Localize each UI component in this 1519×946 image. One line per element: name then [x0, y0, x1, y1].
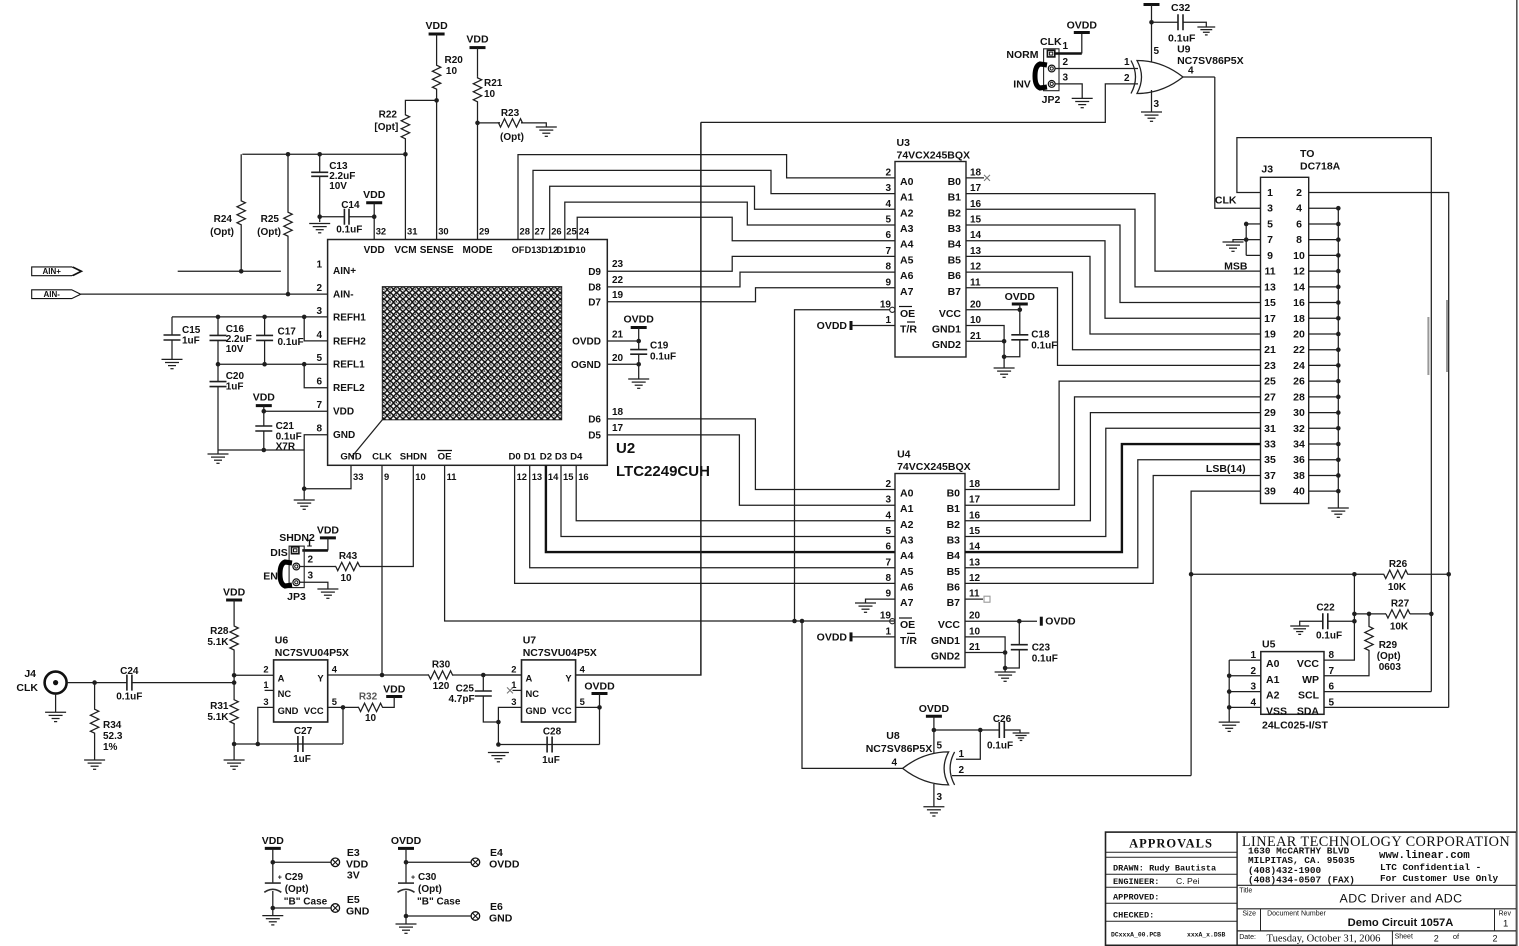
svg-text:16: 16 — [1293, 297, 1305, 309]
svg-text:33: 33 — [353, 471, 363, 482]
svg-text:3: 3 — [885, 495, 891, 506]
svg-text:U8: U8 — [886, 730, 900, 742]
svg-text:6: 6 — [885, 542, 891, 553]
svg-text:C15: C15 — [182, 325, 201, 336]
svg-text:17: 17 — [612, 423, 624, 434]
svg-text:B7: B7 — [947, 597, 961, 609]
svg-text:2: 2 — [1434, 933, 1439, 943]
svg-text:2: 2 — [308, 555, 314, 566]
svg-text:A2: A2 — [900, 207, 914, 219]
svg-text:1: 1 — [959, 749, 965, 760]
svg-text:24LC025-I/ST: 24LC025-I/ST — [1262, 720, 1329, 732]
svg-text:7: 7 — [1329, 666, 1335, 677]
svg-text:C. Pei: C. Pei — [1176, 876, 1199, 886]
svg-text:OVDD: OVDD — [1005, 291, 1036, 303]
svg-text:E4: E4 — [490, 847, 503, 859]
svg-text:18: 18 — [612, 407, 624, 418]
svg-text:Title: Title — [1239, 887, 1252, 894]
svg-text:R27: R27 — [1391, 599, 1410, 610]
svg-text:AIN-: AIN- — [43, 290, 60, 299]
svg-text:(Opt): (Opt) — [285, 884, 309, 895]
svg-text:B0: B0 — [947, 488, 961, 500]
svg-text:T/R: T/R — [900, 635, 917, 647]
svg-text:GND: GND — [340, 452, 361, 463]
svg-text:D10: D10 — [569, 245, 586, 255]
svg-text:5: 5 — [580, 696, 585, 707]
svg-text:4: 4 — [580, 664, 586, 675]
svg-text:30: 30 — [1293, 407, 1305, 419]
svg-text:0.1uF: 0.1uF — [278, 337, 304, 348]
svg-text:CLK: CLK — [16, 682, 38, 694]
svg-text:13: 13 — [970, 246, 982, 257]
svg-text:13: 13 — [969, 557, 981, 568]
svg-text:D13: D13 — [525, 245, 542, 255]
svg-text:U9: U9 — [1177, 44, 1191, 56]
svg-text:3: 3 — [316, 306, 322, 317]
svg-text:32: 32 — [1293, 423, 1305, 435]
svg-text:NC: NC — [278, 688, 292, 699]
svg-text:T/R: T/R — [900, 324, 917, 336]
svg-text:D2: D2 — [540, 452, 552, 463]
svg-text:C32: C32 — [1171, 2, 1190, 14]
svg-text:4: 4 — [332, 664, 338, 675]
svg-text:A0: A0 — [900, 176, 914, 188]
svg-text:B4: B4 — [947, 550, 961, 562]
svg-text:33: 33 — [1264, 439, 1276, 451]
svg-text:NC7SVU04P5X: NC7SVU04P5X — [275, 647, 349, 659]
svg-text:14: 14 — [548, 471, 559, 482]
svg-text:19: 19 — [612, 290, 624, 301]
svg-text:32: 32 — [376, 226, 386, 237]
svg-text:18: 18 — [1293, 313, 1305, 325]
svg-text:D4: D4 — [570, 452, 583, 463]
svg-text:4: 4 — [1296, 203, 1302, 215]
svg-text:6: 6 — [1329, 682, 1335, 693]
svg-text:A6: A6 — [900, 581, 914, 593]
svg-text:12: 12 — [970, 262, 982, 273]
svg-text:R24: R24 — [214, 214, 233, 225]
svg-text:C25: C25 — [456, 684, 475, 695]
svg-text:(Opt): (Opt) — [418, 884, 442, 895]
svg-text:A0: A0 — [900, 488, 914, 500]
svg-text:3: 3 — [1063, 73, 1069, 84]
svg-text:AIN+: AIN+ — [333, 266, 356, 277]
svg-text:Date:: Date: — [1239, 934, 1256, 941]
svg-text:1: 1 — [1503, 919, 1508, 930]
svg-text:(Opt): (Opt) — [500, 132, 524, 143]
svg-text:1%: 1% — [103, 742, 118, 753]
svg-text:MSB: MSB — [1224, 261, 1248, 273]
svg-text:REFL1: REFL1 — [333, 360, 365, 371]
svg-text:B2: B2 — [948, 207, 962, 219]
svg-text:B6: B6 — [947, 581, 961, 593]
svg-text:12: 12 — [517, 471, 527, 482]
svg-text:11: 11 — [970, 277, 981, 288]
svg-text:OVDD: OVDD — [489, 859, 520, 871]
svg-text:R25: R25 — [261, 214, 280, 225]
svg-text:1: 1 — [263, 679, 268, 690]
svg-text:10: 10 — [340, 573, 352, 584]
svg-text:10: 10 — [446, 66, 458, 77]
svg-text:A4: A4 — [900, 550, 914, 562]
svg-text:A7: A7 — [900, 286, 914, 298]
svg-text:0603: 0603 — [1379, 662, 1402, 673]
svg-text:C22: C22 — [1316, 603, 1335, 614]
svg-text:5.1K: 5.1K — [207, 637, 229, 648]
svg-text:WP: WP — [1302, 674, 1319, 686]
svg-text:B5: B5 — [947, 566, 961, 578]
svg-text:APPROVED:: APPROVED: — [1113, 893, 1159, 903]
svg-text:36: 36 — [1293, 454, 1305, 466]
svg-text:2: 2 — [1493, 933, 1498, 943]
svg-text:C14: C14 — [341, 200, 360, 211]
svg-text:18: 18 — [970, 167, 982, 178]
svg-text:5: 5 — [885, 215, 891, 226]
svg-text:11: 11 — [1264, 266, 1275, 278]
svg-text:0.1uF: 0.1uF — [1032, 654, 1058, 665]
svg-text:CHECKED:: CHECKED: — [1113, 911, 1154, 921]
svg-text:OVDD: OVDD — [1067, 20, 1098, 32]
svg-text:17: 17 — [969, 495, 981, 506]
svg-text:Rev: Rev — [1499, 911, 1512, 918]
svg-text:A3: A3 — [900, 223, 914, 235]
svg-text:2: 2 — [1250, 666, 1256, 677]
svg-text:28: 28 — [1293, 391, 1305, 403]
svg-text:OVDD: OVDD — [1045, 616, 1076, 628]
svg-text:31: 31 — [407, 226, 417, 237]
svg-text:R22: R22 — [379, 110, 398, 121]
svg-text:8: 8 — [1329, 650, 1335, 661]
svg-text:9: 9 — [885, 277, 891, 288]
svg-text:10V: 10V — [329, 181, 347, 192]
svg-text:R43: R43 — [339, 551, 358, 562]
svg-text:D1: D1 — [524, 452, 537, 463]
svg-text:D9: D9 — [588, 267, 601, 278]
svg-text:"B" Case: "B" Case — [284, 897, 328, 908]
svg-text:5: 5 — [885, 526, 891, 537]
svg-text:OVDD: OVDD — [817, 631, 848, 643]
svg-text:0.1uF: 0.1uF — [650, 352, 676, 363]
svg-text:NC7SV86P5X: NC7SV86P5X — [866, 743, 933, 755]
svg-text:9: 9 — [384, 471, 389, 482]
svg-text:6: 6 — [316, 377, 322, 388]
svg-text:30: 30 — [438, 226, 448, 237]
svg-text:0.1uF: 0.1uF — [116, 692, 142, 703]
svg-text:4: 4 — [885, 510, 891, 521]
svg-text:9: 9 — [885, 589, 891, 600]
svg-text:R23: R23 — [501, 108, 520, 119]
svg-text:R31: R31 — [210, 701, 229, 712]
svg-text:4.7pF: 4.7pF — [448, 694, 474, 705]
svg-text:SHDN: SHDN — [400, 452, 427, 463]
svg-text:+: + — [278, 875, 282, 882]
svg-text:15: 15 — [1264, 297, 1276, 309]
svg-text:(Opt): (Opt) — [257, 227, 281, 238]
svg-text:29: 29 — [1264, 407, 1276, 419]
svg-text:GND: GND — [278, 705, 299, 716]
svg-text:"B" Case: "B" Case — [417, 897, 461, 908]
svg-text:24: 24 — [1293, 360, 1305, 372]
svg-text:R28: R28 — [210, 626, 229, 637]
svg-text:4: 4 — [891, 758, 897, 769]
svg-text:14: 14 — [1293, 281, 1305, 293]
svg-text:74VCX245BQX: 74VCX245BQX — [897, 461, 971, 473]
svg-text:R21: R21 — [484, 78, 503, 89]
svg-text:10V: 10V — [226, 344, 244, 355]
svg-text:3: 3 — [263, 696, 268, 707]
svg-text:1: 1 — [1063, 41, 1069, 52]
svg-text:INV: INV — [1013, 79, 1031, 91]
svg-text:Y: Y — [317, 673, 324, 684]
svg-text:A1: A1 — [900, 503, 914, 515]
svg-text:8: 8 — [316, 424, 322, 435]
svg-text:24: 24 — [579, 226, 590, 237]
svg-text:23: 23 — [1264, 360, 1276, 372]
svg-text:C29: C29 — [285, 872, 304, 883]
svg-text:4: 4 — [1188, 66, 1194, 77]
svg-text:D8: D8 — [588, 283, 601, 294]
svg-text:NC7SVU04P5X: NC7SVU04P5X — [523, 647, 597, 659]
svg-text:39: 39 — [1264, 486, 1276, 498]
svg-text:VSS: VSS — [1266, 705, 1287, 717]
svg-text:REFH2: REFH2 — [333, 336, 366, 347]
svg-text:0.1uF: 0.1uF — [336, 225, 362, 236]
svg-text:120: 120 — [433, 681, 450, 692]
svg-text:A: A — [278, 673, 285, 684]
svg-text:38: 38 — [1293, 470, 1305, 482]
svg-text:OVDD: OVDD — [919, 703, 950, 715]
svg-text:1: 1 — [885, 626, 891, 637]
svg-text:E5: E5 — [347, 894, 360, 906]
svg-text:A7: A7 — [900, 597, 914, 609]
svg-text:C30: C30 — [418, 872, 437, 883]
svg-text:U6: U6 — [275, 635, 289, 647]
svg-text:B7: B7 — [948, 286, 962, 298]
svg-text:C18: C18 — [1031, 330, 1050, 341]
svg-text:(Opt): (Opt) — [1377, 651, 1401, 662]
svg-text:37: 37 — [1264, 470, 1276, 482]
svg-text:B3: B3 — [948, 223, 962, 235]
svg-text:Sheet: Sheet — [1395, 933, 1413, 940]
svg-text:JP3: JP3 — [287, 591, 306, 603]
svg-text:AIN-: AIN- — [333, 290, 354, 301]
svg-text:R29: R29 — [1379, 640, 1398, 651]
svg-text:VDD: VDD — [317, 525, 340, 537]
svg-text:TO: TO — [1300, 148, 1314, 160]
svg-text:A2: A2 — [900, 519, 914, 531]
svg-text:C19: C19 — [650, 341, 669, 352]
svg-text:OVDD: OVDD — [817, 320, 848, 332]
svg-text:5: 5 — [332, 696, 337, 707]
svg-text:U5: U5 — [1262, 639, 1276, 651]
svg-text:B5: B5 — [948, 254, 962, 266]
svg-text:7: 7 — [885, 246, 891, 257]
svg-text:16: 16 — [970, 199, 982, 210]
svg-text:C23: C23 — [1032, 643, 1051, 654]
svg-text:MODE: MODE — [463, 245, 493, 256]
svg-text:GND2: GND2 — [932, 339, 961, 351]
svg-text:2: 2 — [263, 664, 268, 675]
svg-text:18: 18 — [969, 479, 981, 490]
svg-text:29: 29 — [479, 226, 489, 237]
svg-text:xxxA_x.DSB: xxxA_x.DSB — [1187, 932, 1226, 939]
svg-text:A: A — [526, 673, 533, 684]
svg-text:15: 15 — [970, 215, 982, 226]
svg-text:2: 2 — [959, 765, 965, 776]
svg-text:8: 8 — [885, 262, 891, 273]
svg-text:GND1: GND1 — [932, 324, 961, 336]
svg-text:2: 2 — [316, 283, 322, 294]
svg-text:3: 3 — [308, 571, 314, 582]
svg-text:10K: 10K — [1390, 622, 1409, 633]
svg-text:U7: U7 — [523, 635, 537, 647]
svg-text:D12: D12 — [541, 245, 558, 255]
svg-text:D0: D0 — [508, 452, 520, 463]
svg-text:11: 11 — [447, 471, 457, 482]
svg-text:10: 10 — [969, 626, 981, 637]
svg-text:27: 27 — [1264, 391, 1276, 403]
svg-text:26: 26 — [551, 226, 561, 237]
svg-text:21: 21 — [969, 642, 981, 653]
svg-text:VCC: VCC — [938, 619, 961, 631]
svg-text:VCM: VCM — [394, 245, 416, 256]
svg-text:NC: NC — [526, 688, 540, 699]
svg-text:5: 5 — [1329, 697, 1335, 708]
svg-text:E6: E6 — [490, 901, 503, 913]
svg-text:APPROVALS: APPROVALS — [1129, 837, 1213, 851]
svg-text:C24: C24 — [120, 666, 139, 677]
svg-text:X7R: X7R — [276, 442, 296, 453]
svg-text:5.1K: 5.1K — [207, 712, 229, 723]
svg-text:A2: A2 — [1266, 690, 1280, 702]
svg-text:3: 3 — [1267, 203, 1273, 215]
svg-text:LSB(14): LSB(14) — [1206, 463, 1246, 475]
svg-text:16: 16 — [578, 471, 588, 482]
svg-text:6: 6 — [1296, 218, 1302, 230]
svg-text:OVDD: OVDD — [572, 337, 601, 348]
svg-text:SDA: SDA — [1297, 705, 1320, 717]
svg-text:9: 9 — [1267, 250, 1273, 262]
svg-text:21: 21 — [970, 331, 982, 342]
svg-text:2: 2 — [885, 167, 891, 178]
svg-text:10: 10 — [415, 471, 425, 482]
svg-text:R30: R30 — [432, 660, 451, 671]
svg-text:25: 25 — [566, 226, 576, 237]
svg-text:GND: GND — [333, 430, 355, 441]
svg-text:OE: OE — [900, 619, 915, 631]
svg-text:DCxxxA_00.PCB: DCxxxA_00.PCB — [1111, 932, 1161, 939]
svg-text:Tuesday, October 31, 2006: Tuesday, October 31, 2006 — [1267, 933, 1381, 944]
svg-text:20: 20 — [969, 611, 981, 622]
svg-text:11: 11 — [969, 589, 980, 600]
svg-text:A5: A5 — [900, 566, 914, 578]
svg-text:www.linear.com: www.linear.com — [1379, 850, 1470, 862]
svg-text:7: 7 — [885, 557, 891, 568]
svg-text:16: 16 — [969, 510, 981, 521]
svg-text:OGND: OGND — [571, 360, 601, 371]
svg-text:D5: D5 — [588, 431, 601, 442]
svg-text:34: 34 — [1293, 439, 1305, 451]
svg-text:3: 3 — [1250, 682, 1256, 693]
svg-text:17: 17 — [1264, 313, 1276, 325]
svg-text:20: 20 — [970, 299, 982, 310]
svg-text:[Opt]: [Opt] — [374, 122, 398, 133]
svg-text:13: 13 — [532, 471, 542, 482]
svg-text:DC718A: DC718A — [1300, 161, 1341, 173]
svg-text:3: 3 — [1154, 99, 1160, 110]
svg-text:OF: OF — [512, 245, 525, 255]
svg-text:0.1uF: 0.1uF — [1031, 341, 1057, 352]
svg-text:B3: B3 — [947, 534, 961, 546]
svg-text:of: of — [1453, 932, 1460, 941]
svg-text:25: 25 — [1264, 376, 1276, 388]
svg-text:1: 1 — [307, 539, 313, 550]
svg-text:OVDD: OVDD — [584, 681, 615, 693]
svg-text:VDD: VDD — [253, 392, 276, 404]
svg-text:J4: J4 — [24, 668, 36, 680]
svg-text:GND1: GND1 — [931, 635, 960, 647]
svg-text:2: 2 — [511, 664, 516, 675]
svg-text:(Opt): (Opt) — [210, 227, 234, 238]
svg-text:AIN+: AIN+ — [42, 267, 61, 276]
svg-text:31: 31 — [1264, 423, 1276, 435]
svg-text:ENGINEER:: ENGINEER: — [1113, 877, 1159, 887]
svg-text:5: 5 — [1154, 46, 1160, 57]
svg-text:3: 3 — [885, 183, 891, 194]
svg-text:ADC Driver and ADC: ADC Driver and ADC — [1340, 892, 1463, 906]
svg-text:10: 10 — [970, 315, 982, 326]
svg-text:40: 40 — [1293, 486, 1305, 498]
svg-text:0.1uF: 0.1uF — [987, 741, 1013, 752]
svg-text:1uF: 1uF — [542, 755, 560, 766]
svg-text:2: 2 — [1063, 57, 1069, 68]
svg-text:Demo Circuit 1057A: Demo Circuit 1057A — [1348, 917, 1454, 929]
svg-text:7: 7 — [1267, 234, 1273, 246]
svg-text:B6: B6 — [948, 270, 962, 282]
svg-text:A5: A5 — [900, 254, 914, 266]
svg-text:REFH1: REFH1 — [333, 312, 366, 323]
svg-text:OE: OE — [438, 452, 452, 463]
svg-text:GND: GND — [526, 705, 547, 716]
svg-text:15: 15 — [563, 471, 573, 482]
svg-text:Document Number: Document Number — [1267, 911, 1326, 918]
svg-text:20: 20 — [612, 353, 624, 364]
svg-text:DRAWN: Rudy Bautista: DRAWN: Rudy Bautista — [1113, 864, 1216, 874]
svg-text:VDD: VDD — [466, 34, 489, 46]
svg-text:3: 3 — [937, 792, 943, 803]
svg-text:1: 1 — [1267, 187, 1273, 199]
svg-text:VCC: VCC — [304, 705, 324, 716]
svg-text:C17: C17 — [278, 327, 297, 338]
svg-text:R20: R20 — [445, 55, 464, 66]
svg-text:3: 3 — [511, 696, 516, 707]
svg-text:DIS: DIS — [270, 547, 288, 559]
svg-text:A0: A0 — [1266, 658, 1280, 670]
svg-text:VDD: VDD — [426, 20, 449, 32]
svg-text:23: 23 — [612, 259, 624, 270]
svg-text:3V: 3V — [347, 870, 360, 882]
svg-text:Size: Size — [1242, 911, 1256, 918]
svg-text:35: 35 — [1264, 454, 1276, 466]
svg-text:0.1uF: 0.1uF — [1316, 631, 1342, 642]
svg-text:NC7SV86P5X: NC7SV86P5X — [1177, 55, 1244, 67]
svg-text:U4: U4 — [897, 449, 911, 461]
svg-text:U3: U3 — [897, 137, 911, 149]
svg-text:20: 20 — [1293, 328, 1305, 340]
svg-text:21: 21 — [1264, 344, 1276, 356]
svg-text:21: 21 — [612, 330, 624, 341]
svg-text:+: + — [411, 875, 415, 882]
